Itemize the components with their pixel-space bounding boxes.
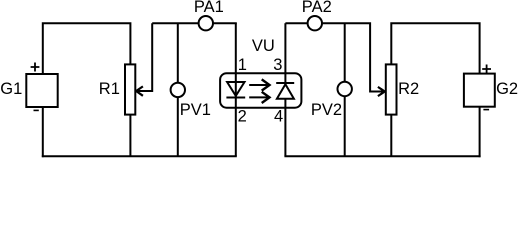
svg-text:PA2: PA2 — [302, 0, 332, 16]
wire: PA2 to R2 wiper — [322, 23, 385, 91]
svg-text:3: 3 — [273, 56, 282, 74]
wire: VU pin 3 to ammeter PA2 — [285, 22, 307, 24]
polarity mark - (G1) — [34, 109, 39, 111]
svg-text:4: 4 — [274, 108, 283, 126]
wire: bottom-left rail — [42, 155, 237, 157]
svg-text:VU: VU — [252, 37, 275, 55]
wire: R1 wiper to ammeter PA1 — [152, 22, 199, 24]
photodiode cathode bar — [276, 82, 294, 84]
wire: VU pin 3 lead — [284, 23, 286, 83]
polarity mark + (G2) — [482, 65, 491, 74]
light arrow lower — [249, 96, 269, 98]
wire: VU pin 2 lead to bottom rail — [235, 98, 237, 157]
LED of VU (emitting diode) — [227, 82, 244, 96]
wire: R2 top lead, top-right rail, G2 positive lead — [391, 23, 479, 73]
wire: G1 positive lead, top-left rail, R1 top lead — [43, 23, 131, 73]
photodiode of VU — [277, 84, 294, 99]
arrowhead of R2 wiper — [378, 87, 385, 96]
wire: PV2 branch from top wire — [344, 23, 346, 82]
svg-text:G2: G2 — [496, 80, 518, 98]
polarity mark - (G2) — [483, 109, 489, 111]
wire: VU pin 4 lead to bottom rail — [284, 99, 286, 156]
polarity mark + (G1) — [31, 63, 40, 72]
svg-text:PV1: PV1 — [180, 101, 211, 119]
light arrow upper — [249, 84, 269, 86]
wiper arrow of R1 — [137, 23, 152, 91]
light arrow lower head — [262, 92, 270, 103]
ammeter PA1 — [199, 16, 213, 30]
light arrow upper head — [262, 79, 270, 90]
arrowhead of R1 wiper — [136, 86, 143, 95]
svg-text:2: 2 — [238, 108, 247, 126]
wire: VU pin 1 lead through LED — [235, 23, 237, 97]
wire: PV2 to bottom rail — [344, 96, 346, 156]
svg-text:G1: G1 — [0, 80, 22, 98]
wire: G1 negative lead — [42, 108, 44, 157]
generator G1 — [26, 74, 57, 107]
svg-text:PA1: PA1 — [194, 0, 224, 16]
svg-text:R1: R1 — [99, 80, 120, 98]
svg-text:R2: R2 — [398, 80, 419, 98]
LED cathode bar — [226, 97, 245, 99]
wire: PA1 to VU pin 1 — [213, 22, 237, 24]
voltmeter PV1 — [171, 83, 185, 97]
ammeter PA2 — [308, 16, 322, 30]
optocoupler VU body — [220, 73, 301, 108]
wire: R1 bottom lead — [129, 115, 131, 157]
wire: G2 negative lead — [479, 107, 481, 158]
potentiometer R1 — [125, 64, 135, 114]
potentiometer R2 — [386, 64, 397, 114]
voltmeter PV2 — [338, 82, 352, 96]
svg-text:1: 1 — [238, 56, 247, 74]
wire: PV1 branch from top wire — [177, 23, 179, 83]
wire: PV1 to bottom rail — [177, 97, 179, 156]
wire: R2 bottom lead — [390, 115, 392, 157]
wire: bottom-right rail — [284, 155, 480, 157]
generator G2 — [464, 74, 495, 107]
svg-text:PV2: PV2 — [311, 101, 342, 119]
